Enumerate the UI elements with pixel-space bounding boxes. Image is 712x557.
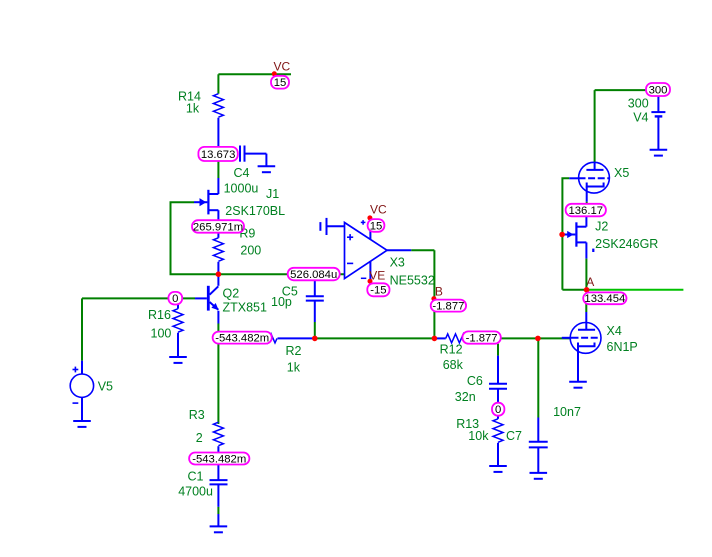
node value label -1.877 [431,300,466,312]
ground [258,165,276,167]
svg-text:-1.877: -1.877 [432,301,464,313]
resistor R14 [217,74,219,93]
node value label 526.084u [288,268,340,281]
node value label 13.673 [198,147,237,161]
tube X4 6N1P [570,323,601,354]
svg-text:X4: X4 [607,324,622,338]
transistor Q2 ZTX851 [217,274,219,286]
junction dot [584,287,590,293]
ground [569,381,587,383]
wire [218,273,344,275]
wire [171,202,219,274]
wire [387,249,411,251]
svg-text:15: 15 [370,220,383,232]
svg-text:133.454: 133.454 [584,293,625,305]
svg-text:6N1P: 6N1P [607,340,638,354]
svg-text:R16: R16 [148,308,171,322]
svg-text:R3: R3 [189,408,205,422]
wire [562,178,569,289]
svg-text:10k: 10k [468,429,489,443]
svg-text:A: A [586,275,594,289]
wire [217,161,219,178]
resistor R2 [218,337,253,339]
resistor R12 [434,337,445,339]
junction dot [367,215,372,220]
svg-text:C4: C4 [234,166,250,180]
wire [501,337,571,339]
node value label 0 [168,292,182,305]
svg-text:136.17: 136.17 [568,205,603,217]
ground [169,356,187,358]
capacitor C5 [314,280,316,296]
wire net A [587,289,684,291]
capacitor C7 10n7 [537,338,539,417]
svg-text:Q2: Q2 [223,286,240,300]
wire [315,337,435,339]
op-amp X3 NE5532 [345,223,388,279]
svg-text:100: 100 [151,327,172,341]
transistor J2 2SK246GR [585,216,587,226]
svg-text:-15: -15 [370,285,386,297]
wire [585,259,587,290]
svg-text:4700u: 4700u [178,485,213,499]
wire [82,297,195,299]
node value label -543.482m [213,332,272,344]
svg-text:10n7: 10n7 [553,405,581,419]
junction dot [432,336,438,342]
resistor R16 [177,305,179,309]
resistor R9 [217,233,219,238]
node value label 300 [646,83,670,96]
capacitor C6 [497,344,499,356]
source V4 [657,96,659,112]
svg-text:-543.482m: -543.482m [192,453,246,465]
svg-text:R2: R2 [286,344,302,358]
svg-text:200: 200 [240,243,261,257]
junction dot [535,336,541,342]
ground [210,525,228,527]
ground [650,149,668,151]
svg-text:265.971m: 265.971m [193,221,243,233]
junction dot [272,71,277,76]
svg-text:0: 0 [495,404,501,416]
ground [73,420,91,422]
junction dot [368,279,373,284]
svg-text:R12: R12 [440,343,463,357]
wire [562,289,586,291]
svg-text:1k: 1k [186,102,200,116]
svg-text:526.084u: 526.084u [290,269,337,281]
svg-text:C7: C7 [506,429,522,443]
svg-text:32n: 32n [455,390,476,404]
junction dot [312,336,318,342]
wire [594,90,596,162]
wire [218,73,291,75]
junction dot [559,232,565,238]
svg-text:-543.482m: -543.482m [215,333,269,345]
svg-text:B: B [435,284,443,298]
wire vcc pin [369,218,371,240]
svg-text:2SK170BL: 2SK170BL [225,204,285,218]
wire [314,322,316,338]
node value label -543.482m [189,453,249,465]
svg-text:68k: 68k [443,358,464,372]
ground [489,465,507,467]
wire vee pin [369,261,371,281]
node value label 15 [368,219,385,232]
svg-text:13.673: 13.673 [201,149,236,161]
node value label 15 [271,76,289,89]
svg-text:C6: C6 [467,374,483,388]
svg-text:V5: V5 [98,379,113,393]
svg-text:2: 2 [196,431,203,445]
svg-text:0: 0 [172,293,178,305]
svg-text:1k: 1k [287,361,301,375]
junction dot [216,271,222,277]
node value label 133.454 [583,292,626,304]
svg-text:VC: VC [274,59,291,73]
svg-text:10p: 10p [271,295,292,309]
svg-text:1000u: 1000u [224,182,259,196]
svg-text:J2: J2 [595,220,608,234]
svg-text:X5: X5 [614,166,629,180]
svg-text:NE5532: NE5532 [390,273,435,287]
svg-text:X3: X3 [390,256,405,270]
resistor R3 [213,422,223,446]
svg-text:VC: VC [370,203,387,217]
svg-text:-1.877: -1.877 [466,332,498,344]
node value label 0 [492,403,504,416]
svg-text:15: 15 [274,77,287,89]
ground [530,472,548,474]
node value label 265.971m [192,220,244,233]
node value label 136.17 [566,204,606,217]
svg-text:V4: V4 [633,111,648,125]
node value label -1.877 [462,331,500,343]
svg-text:ZTX851: ZTX851 [223,301,268,315]
capacitor C4 [239,146,241,162]
tube X5 [579,162,610,193]
transistor J1 2SK170BL [208,193,218,195]
node value label -15 [367,283,389,296]
svg-text:J1: J1 [266,187,279,201]
svg-text:300: 300 [649,84,668,96]
svg-text:300: 300 [628,97,649,111]
svg-text:2SK246GR: 2SK246GR [595,237,658,251]
source V5 [81,298,83,360]
svg-text:C1: C1 [188,469,204,483]
capacitor C1 [217,465,219,481]
wire [217,324,219,425]
junction dot [431,296,436,301]
resistor R13 [497,416,499,419]
